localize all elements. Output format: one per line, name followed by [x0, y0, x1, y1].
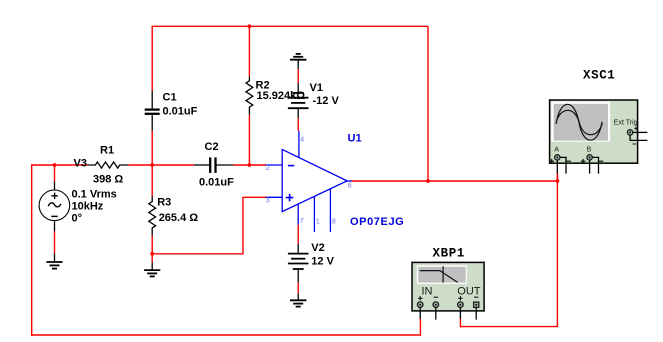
ground (below V2): [290, 294, 306, 307]
svg-text:398 Ω: 398 Ω: [93, 173, 123, 185]
junction: C1/R3 tap on input wire: [150, 163, 154, 167]
oscilloscope XSC1 body: [550, 100, 638, 163]
wire: V3 bottom to ground: [54, 231, 56, 253]
wire: bottom horizontal to XBP1 IN+: [31, 334, 421, 336]
value C2 0.01uF: [199, 176, 234, 188]
svg-text:A: A: [554, 147, 559, 154]
value V1 -12 V: [313, 95, 340, 107]
wire: op-amp output horizontal: [352, 180, 558, 182]
value C1 0.01uF: [163, 106, 198, 118]
XBP1 OUT- terminal: [474, 297, 479, 319]
XSC1 channel B label: [587, 147, 592, 154]
label V3: [74, 158, 87, 170]
junction: output meets scope branch: [556, 179, 560, 183]
wire: ground node to op-amp pin3: [152, 197, 266, 254]
junction: V3 tap on input wire: [53, 163, 57, 167]
XBP1 response curve: [420, 266, 458, 282]
svg-text:1: 1: [316, 218, 320, 225]
wire: V2 bottom red stub: [297, 282, 299, 294]
label R3: [157, 197, 171, 209]
XSC1 waveform trace A: [556, 104, 602, 140]
junction: feedback meets output: [426, 179, 430, 183]
label U1: [348, 133, 362, 145]
pin number 7: [300, 218, 304, 225]
svg-text:R3: R3: [157, 197, 171, 209]
wire: left vertical drop to bottom net: [31, 164, 33, 335]
wire: C2 to op-amp pin2: [233, 164, 266, 166]
svg-text:IN: IN: [422, 286, 433, 298]
svg-text:6: 6: [348, 183, 352, 190]
wire: R3 bottom to ground node: [151, 236, 153, 263]
svg-text:V2: V2: [311, 242, 324, 254]
svg-text:OP07EJG: OP07EJG: [350, 216, 404, 228]
wire: R2 top to feedback net: [248, 26, 250, 76]
wire: input between R1 and C2: [128, 164, 194, 166]
svg-text:U1: U1: [348, 133, 362, 145]
wire: input net down to R3: [151, 165, 153, 196]
wire: feedback left vertical (top wire down to C1): [151, 26, 153, 91]
XBP1 IN- terminal: [433, 297, 439, 319]
ground (above V1, flipped): [290, 54, 306, 69]
label C2: [205, 141, 219, 153]
wire: V3 top stub: [54, 165, 56, 182]
value R3 265.4 ohm: [159, 212, 199, 224]
value V3 0.1 Vrms: [72, 188, 117, 200]
svg-text:8: 8: [332, 218, 336, 225]
pin number 8: [332, 218, 336, 225]
svg-text:OUT: OUT: [457, 286, 481, 298]
pin 3 stub: [266, 196, 283, 198]
XBP1 IN+ terminal: [417, 296, 423, 319]
bode plotter XBP1 body: [412, 262, 484, 311]
wire: top feedback horizontal net: [152, 25, 428, 27]
pin 1 stub: [313, 197, 315, 232]
XSC1 Ext Trig terminal: [627, 127, 647, 144]
label V1: [310, 82, 323, 94]
svg-text:0.01uF: 0.01uF: [163, 106, 198, 118]
svg-text:0.01uF: 0.01uF: [199, 176, 234, 188]
label C1: [163, 92, 177, 104]
wire: pin7 red stub to V2: [297, 225, 299, 244]
pin 4 stub: [298, 131, 300, 158]
svg-text:10kHz: 10kHz: [72, 201, 104, 213]
svg-text:V3: V3: [74, 158, 87, 170]
XBP1 OUT+ terminal: [458, 296, 464, 319]
ground (below V3): [46, 253, 62, 268]
label R1: [100, 145, 114, 157]
XBP1 OUT label: [457, 286, 481, 298]
value V3 0 deg: [72, 213, 83, 225]
capacitor C2: [194, 157, 234, 173]
label XSC1: [583, 68, 615, 82]
wire: XBP1 IN+ vertical: [419, 319, 421, 336]
svg-text:-12 V: -12 V: [313, 95, 340, 107]
wire: XBP1 OUT+ horizontal: [460, 326, 558, 328]
junction: R2 tap at pin2 net: [248, 163, 252, 167]
label R2: [256, 80, 270, 92]
pin 6 output stub: [347, 180, 352, 182]
pin 2 stub: [266, 164, 283, 166]
resistor R1: [88, 162, 129, 168]
wire: scope A red stub: [556, 174, 558, 182]
svg-text:265.4 Ω: 265.4 Ω: [159, 212, 199, 224]
pin number 2: [266, 165, 270, 172]
pin number 6: [348, 183, 352, 190]
label V2: [311, 242, 324, 254]
pin 7 stub: [297, 204, 299, 225]
value V3 10kHz: [72, 201, 104, 213]
pin 8 stub: [329, 189, 331, 232]
source V3: [39, 182, 70, 232]
svg-text:XSC1: XSC1: [583, 68, 615, 82]
svg-text:C1: C1: [163, 92, 177, 104]
svg-text:V1: V1: [310, 82, 323, 94]
svg-text:3: 3: [266, 197, 270, 204]
svg-text:15.924kΩ: 15.924kΩ: [257, 90, 306, 102]
svg-text:B: B: [587, 147, 592, 154]
wire: R2 bottom to pin2 net: [248, 115, 250, 165]
wire: main input horizontal left segment: [32, 164, 88, 166]
op-amp U1: [282, 149, 347, 211]
svg-text:Ext Trig: Ext Trig: [614, 120, 638, 127]
op-amp minus input mark: [288, 165, 294, 167]
pin number 1: [316, 218, 320, 225]
svg-text:2: 2: [266, 165, 270, 172]
junction at top wire / R2 branch: [248, 24, 252, 28]
svg-text:0.1 Vrms: 0.1 Vrms: [72, 188, 117, 200]
ground (below R3): [144, 262, 160, 276]
pin number 4: [300, 137, 304, 144]
battery V2: [288, 244, 309, 282]
XSC1 channel B terminal: [581, 155, 603, 174]
junction: R3 bottom / pin3 net: [150, 252, 154, 256]
value 398 ohm: [93, 173, 123, 185]
svg-text:0°: 0°: [72, 213, 83, 225]
svg-text:R1: R1: [100, 145, 114, 157]
XBP1 IN label: [422, 286, 433, 298]
battery V1: [288, 83, 309, 118]
svg-text:7: 7: [300, 218, 304, 225]
capacitor C1: [145, 91, 160, 131]
wire: V1 lower red stub to pin4: [297, 118, 299, 130]
XSC1 channel A terminal: [549, 155, 571, 174]
XSC1 channel A label: [554, 147, 559, 154]
XSC1 waveform trace B: [556, 110, 602, 134]
svg-text:C2: C2: [205, 141, 219, 153]
value R2 15.924kOhm: [257, 90, 306, 102]
value V2 12 V: [311, 256, 334, 268]
wire: XBP1 OUT+ vertical stub: [459, 319, 461, 328]
wire: V1 upper red stub: [297, 69, 299, 83]
pin number 3: [266, 197, 270, 204]
wire: scope A drop vertical to XBP1 OUT loop: [556, 174, 558, 327]
wire: C1 bottom to input net: [151, 131, 153, 165]
label XBP1: [433, 247, 465, 261]
svg-text:4: 4: [300, 137, 304, 144]
op-amp plus input mark: [286, 194, 294, 202]
resistor R2: [246, 76, 253, 114]
wire: feedback right vertical (top wire down to output): [427, 26, 429, 181]
resistor R3: [149, 196, 156, 236]
XSC1 Ext Trig label: [614, 120, 638, 127]
svg-text:XBP1: XBP1: [433, 247, 465, 261]
label OP07EJG: [350, 216, 404, 228]
svg-text:12 V: 12 V: [311, 256, 334, 268]
